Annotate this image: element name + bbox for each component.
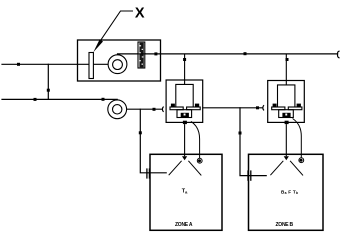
svg-text:ZONE A: ZONE A: [175, 222, 193, 228]
svg-text:ZONE B: ZONE B: [276, 222, 294, 228]
svg-text:Ba F Tb: Ba F Tb: [281, 189, 298, 195]
svg-text:Ta: Ta: [182, 189, 188, 195]
svg-text:X: X: [135, 5, 145, 21]
